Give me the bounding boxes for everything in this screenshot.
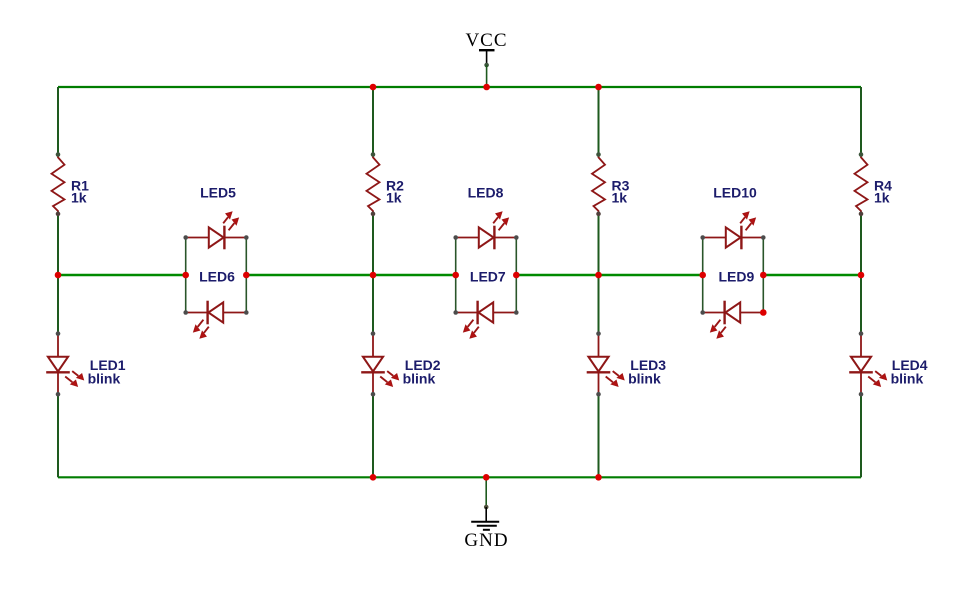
wire mid rail segment 3 — [516, 274, 702, 276]
wire left branch x=58 — [57, 87, 59, 477]
svg-text:1k: 1k — [71, 190, 87, 206]
svg-text:LED6: LED6 — [199, 269, 235, 285]
svg-text:blink: blink — [88, 370, 121, 386]
ground GND — [464, 477, 508, 551]
wire LED10/LED9 block stubs — [703, 238, 764, 313]
led LED7 — [453, 301, 518, 338]
svg-text:blink: blink — [403, 370, 436, 386]
junction dots top rail — [370, 84, 602, 91]
junction dots mid rail — [55, 272, 865, 279]
wire mid rail segment 4 — [763, 274, 861, 276]
resistor R3 — [592, 152, 605, 216]
wire branch x=598.5 — [598, 87, 600, 477]
wire mid rail segment 2 — [246, 274, 455, 276]
wire mid rail segment 1 — [58, 274, 186, 276]
power VCC — [465, 30, 507, 87]
led LED6 — [183, 301, 248, 338]
resistor R1 — [52, 152, 65, 216]
wire top rail — [58, 86, 861, 88]
wire bottom rail — [58, 476, 861, 478]
wire branch x=373 — [372, 87, 374, 477]
svg-text:LED5: LED5 — [200, 185, 236, 201]
led LED2 — [361, 331, 398, 396]
svg-text:VCC: VCC — [465, 30, 507, 51]
wire LED8/LED7 block stubs — [456, 238, 517, 313]
resistor R2 — [367, 152, 380, 216]
svg-text:blink: blink — [628, 370, 661, 386]
svg-text:LED10: LED10 — [713, 185, 757, 201]
led LED5 — [183, 212, 248, 249]
svg-text:LED8: LED8 — [468, 185, 504, 201]
led LED10 — [700, 212, 765, 249]
junction dot LED9 right pin — [760, 309, 767, 316]
resistor R4 — [855, 152, 868, 216]
led LED8 — [453, 212, 518, 249]
led LED3 — [587, 331, 624, 396]
svg-text:LED9: LED9 — [719, 269, 755, 285]
junction dots bottom rail — [370, 474, 602, 481]
led LED4 — [849, 331, 886, 396]
wire LED5/LED6 block stubs — [186, 238, 247, 313]
svg-text:blink: blink — [891, 370, 924, 386]
svg-text:1k: 1k — [874, 190, 890, 206]
svg-text:1k: 1k — [386, 190, 402, 206]
led LED9 — [700, 301, 765, 338]
svg-text:LED7: LED7 — [470, 269, 506, 285]
svg-text:GND: GND — [464, 530, 508, 551]
wire right branch x=861 — [860, 87, 862, 477]
svg-text:1k: 1k — [612, 190, 628, 206]
led LED1 — [46, 331, 83, 396]
